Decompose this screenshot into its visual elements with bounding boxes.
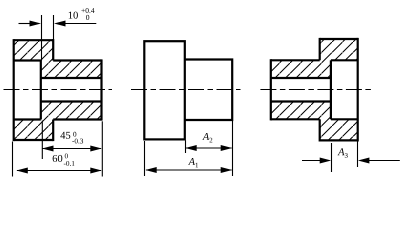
counterbore step face <box>330 60 332 119</box>
flange right face (upper) <box>52 39 54 60</box>
section hatching upper area <box>271 39 358 78</box>
dim 10 extension line left <box>41 15 43 61</box>
spigot bottom edge <box>53 118 101 120</box>
left end face <box>13 39 15 141</box>
flange bottom edge <box>14 139 54 141</box>
dim 60 arrow left <box>16 168 28 174</box>
dim 60 arrow right <box>90 168 102 174</box>
centerline (axis) <box>131 89 241 91</box>
small diameter outline <box>185 60 232 121</box>
dim 10 extension line right <box>53 15 55 61</box>
sleeve top edge <box>271 59 320 61</box>
dim A3 arrow right <box>358 158 370 164</box>
dim text 60 0/-0.1 <box>53 154 75 166</box>
flange top edge <box>14 39 54 41</box>
dim text 45 0/-0.3 <box>60 132 83 144</box>
section hatching lower area <box>271 102 358 141</box>
bore top wall <box>271 77 331 79</box>
counterbore bottom wall <box>14 118 41 120</box>
counterbore top wall <box>14 59 41 61</box>
counterbore step face <box>40 61 42 120</box>
bore bottom wall <box>41 100 102 102</box>
dim text A2 <box>202 133 212 142</box>
right end face <box>100 59 102 120</box>
flange left face (lower) <box>319 119 321 141</box>
dim 45 extension line left <box>41 121 43 160</box>
flange top edge <box>320 38 358 40</box>
section hatching upper area <box>14 40 102 78</box>
dim text A3 <box>338 148 348 158</box>
dim A1 extension line left <box>144 141 146 176</box>
dim A1 line <box>146 169 232 171</box>
dim A3 arrow left <box>320 158 332 164</box>
flange left face (upper) <box>319 38 321 60</box>
dim 45 arrow left <box>42 146 54 152</box>
spigot top edge <box>53 59 101 61</box>
counterbore top wall <box>331 59 358 61</box>
dim 45/60 extension line right <box>101 121 103 176</box>
flange right face <box>357 38 359 142</box>
dim 45 arrow right <box>90 146 102 152</box>
large diameter outline <box>144 41 185 139</box>
dim A2/A1 extension line right <box>232 121 234 176</box>
dim A2 extension line left <box>185 141 187 154</box>
flange right face (lower) <box>52 120 54 142</box>
bore bottom wall <box>271 100 331 102</box>
centerline (axis) <box>4 89 113 91</box>
dim A3 extension line right <box>357 142 359 168</box>
dim A3 extension line left <box>331 143 333 172</box>
dim text A1 <box>188 158 198 167</box>
sleeve bottom edge <box>271 118 320 120</box>
dim A1 arrow right <box>221 167 233 173</box>
dim 10 arrow left <box>30 21 42 27</box>
dim A3 leader left <box>302 160 321 162</box>
bore top wall <box>41 77 102 79</box>
dim 10 leader left <box>19 23 32 25</box>
centerline (axis) <box>260 89 371 91</box>
dim 60 extension line left <box>12 142 14 177</box>
left end face <box>270 59 272 120</box>
dim A3 leader right <box>368 160 400 162</box>
dim A1 arrow left <box>145 167 157 173</box>
dim A2 line <box>186 147 232 149</box>
dim 10 arrow right <box>54 21 66 27</box>
dim A2 arrow right <box>221 145 233 151</box>
counterbore bottom wall <box>331 118 358 120</box>
dim A2 arrow left <box>185 145 197 151</box>
flange bottom edge <box>320 139 358 141</box>
dim text 10 +0.4/0 <box>69 8 95 20</box>
section hatching lower area <box>14 102 102 141</box>
dim 60 line <box>17 170 101 172</box>
dim 10 leader right <box>65 23 97 25</box>
dim 45 line <box>42 148 101 150</box>
